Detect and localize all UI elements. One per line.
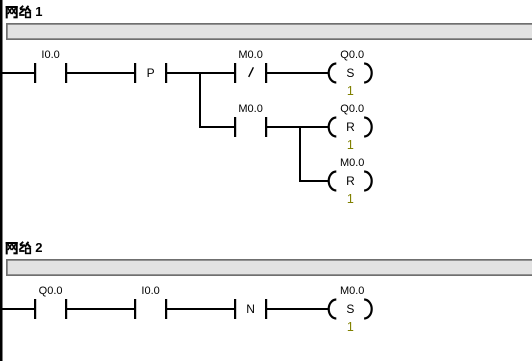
svg-text:N: N <box>246 302 255 316</box>
svg-text:P: P <box>147 66 155 80</box>
svg-text:M0.0: M0.0 <box>340 157 364 169</box>
network 2 comment bar <box>7 260 532 275</box>
svg-text:Q0.0: Q0.0 <box>340 49 364 61</box>
svg-text:1: 1 <box>347 84 354 98</box>
wire: I0.0 to P contact <box>67 72 135 74</box>
wire: branch to coil M0.0 R <box>300 180 330 182</box>
svg-text:2: 2 <box>35 240 42 255</box>
svg-text:R: R <box>346 174 355 188</box>
node: network 1 title (网络 1) <box>6 4 43 19</box>
wire: I0.0 to N contact network 2 <box>167 308 235 310</box>
svg-text:1: 1 <box>35 4 42 19</box>
contact N negative edge network 2, pin letter N <box>234 299 267 319</box>
left power rail (both networks) <box>0 0 3 361</box>
coil M0.0 reset (R) <box>329 172 372 191</box>
wire: N contact to coil M0.0 network 2 <box>267 308 330 310</box>
svg-text:M0.0: M0.0 <box>238 49 262 61</box>
contact I0.0 normally open <box>34 63 67 83</box>
contact P positive edge, pin letter P <box>134 63 167 83</box>
svg-text:1: 1 <box>347 192 354 206</box>
node: network 2 title (网络 2) <box>6 240 43 255</box>
svg-text:1: 1 <box>347 320 354 334</box>
wire: M0.0 contact to coil Q0.0 R (through junction x=300) <box>267 126 330 128</box>
svg-text:I0.0: I0.0 <box>141 285 159 297</box>
coil M0.0 set (S) network 2 <box>329 300 372 319</box>
svg-text:R: R <box>346 120 355 134</box>
wire: rail to contact I0.0 <box>0 72 35 74</box>
contact M0.0 normally closed (slash) <box>234 63 267 83</box>
svg-text:I0.0: I0.0 <box>41 49 59 61</box>
wire: branch down from row 2 to row 3 at x=300 <box>299 126 301 182</box>
coil Q0.0 set (S) <box>329 64 372 83</box>
svg-text:M0.0: M0.0 <box>238 103 262 115</box>
svg-text:M0.0: M0.0 <box>340 285 364 297</box>
contact I0.0 normally open network 2 <box>134 299 167 319</box>
svg-text:Q0.0: Q0.0 <box>39 285 63 297</box>
wire: branch to M0.0 contact row 2 <box>200 126 235 128</box>
wire: Q0.0 to I0.0 network 2 <box>67 308 135 310</box>
wire: branch down from row 1 to row 2 at x=200 <box>199 72 201 128</box>
contact M0.0 normally open row 2 <box>234 117 267 137</box>
wire: P contact to M0.0 NC contact (through branch junction x=200) <box>167 72 235 74</box>
svg-text:1: 1 <box>347 138 354 152</box>
svg-text:S: S <box>346 302 354 316</box>
network 1 comment bar <box>7 24 532 39</box>
svg-text:Q0.0: Q0.0 <box>340 103 364 115</box>
contact Q0.0 normally open network 2 <box>34 299 67 319</box>
coil Q0.0 reset (R) <box>329 118 372 137</box>
wire: M0.0 NC contact to coil Q0.0 <box>267 72 330 74</box>
svg-text:S: S <box>346 66 354 80</box>
wire: rail to contact Q0.0 network 2 <box>0 308 35 310</box>
